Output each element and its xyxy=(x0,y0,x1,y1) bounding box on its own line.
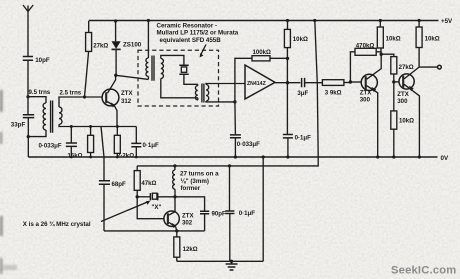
capacitor 0.1uF output decoupling xyxy=(283,83,311,157)
wire base xyxy=(350,81,361,83)
node Q2 base xyxy=(349,80,352,83)
node antenna/coil junction xyxy=(26,95,29,98)
capacitor 0.033uF xyxy=(39,127,78,158)
transformer core xyxy=(51,101,53,133)
svg-text:300: 300 xyxy=(397,98,408,105)
capacitor 33pF xyxy=(11,115,34,157)
resistor 12k xyxy=(174,231,198,261)
svg-text:15kΩ: 15kΩ xyxy=(68,153,83,160)
resistor 15k xyxy=(68,127,94,160)
wire T1 primary bottom xyxy=(147,76,149,79)
svg-text:Ceramic Resonator -: Ceramic Resonator - xyxy=(157,23,218,30)
resistor 47k xyxy=(134,166,156,197)
svg-text:10kΩ: 10kΩ xyxy=(293,36,308,43)
node xyxy=(89,125,92,128)
resistor 10k Q2 collector load xyxy=(377,21,400,55)
svg-text:SeekIC.com: SeekIC.com xyxy=(391,265,456,277)
svg-text:0·1μF: 0·1μF xyxy=(143,142,160,149)
svg-text:100kΩ: 100kΩ xyxy=(253,49,272,56)
svg-text:0·033μF: 0·033μF xyxy=(39,142,62,149)
wire secondary top to base xyxy=(59,97,102,107)
wire primary top xyxy=(28,97,46,103)
svg-text:10kΩ: 10kΩ xyxy=(386,36,401,43)
svg-text:3 9kΩ: 3 9kΩ xyxy=(325,89,342,96)
wire collector to resonator coil xyxy=(116,75,149,79)
svg-text:Mullard LP 1175/2 or Murata: Mullard LP 1175/2 or Murata xyxy=(157,30,239,37)
node Q2 collector junction xyxy=(380,53,383,56)
resistor 10k Q3 base bias xyxy=(391,82,414,157)
node 47k/crystal xyxy=(136,195,139,198)
wire 0V to ground line xyxy=(262,157,264,261)
antenna xyxy=(23,5,33,56)
inductor input primary 9.5 trns xyxy=(29,89,51,130)
inductor input secondary 2.5 trns xyxy=(59,90,82,125)
node emitter xyxy=(175,229,178,232)
wire rail to T1 primary xyxy=(147,21,149,59)
svg-text:10kΩ: 10kΩ xyxy=(425,36,440,43)
T1 core xyxy=(152,56,154,81)
node xyxy=(116,125,119,128)
wire T2 secondary top to ZN414 input xyxy=(206,84,245,85)
resistor 27k bias xyxy=(85,21,109,97)
label crystal note xyxy=(23,201,151,228)
svg-text:300: 300 xyxy=(360,97,371,104)
wire base Q3 xyxy=(394,81,399,83)
inductor 27 turns coil xyxy=(173,166,175,197)
svg-text:27kΩ: 27kΩ xyxy=(399,64,414,71)
node ground junction xyxy=(230,260,233,263)
ceramic resonator dashed box xyxy=(138,50,219,106)
svg-text:470kΩ: 470kΩ xyxy=(356,43,375,50)
svg-text:12kΩ: 12kΩ xyxy=(183,246,198,253)
transistor Q4 ZTX302 xyxy=(164,197,195,231)
resistor 3.9k xyxy=(322,80,350,97)
svg-text:3μF: 3μF xyxy=(297,90,308,97)
svg-text:ZTX: ZTX xyxy=(121,90,133,97)
arrow to resonator box xyxy=(200,45,206,58)
resistor 470k feedback xyxy=(350,43,381,82)
wire T1 secondary bottom to T2 xyxy=(161,79,198,98)
wire ZTX312 emitter to oscillator xyxy=(101,127,104,181)
capacitor 0.1uF oscillator decoupling xyxy=(225,166,255,261)
node base/27k junction xyxy=(83,95,86,98)
svg-text:0·033μF: 0·033μF xyxy=(237,141,260,148)
wire T2 secondary bottom xyxy=(206,100,235,103)
label ceramic resonator note xyxy=(157,23,239,44)
wire xyxy=(27,97,29,115)
svg-text:ZTX: ZTX xyxy=(397,91,409,98)
inductor T1 primary xyxy=(146,58,149,76)
svg-text:ZN414Z: ZN414Z xyxy=(247,81,267,87)
wire base L xyxy=(137,197,164,219)
svg-text:312: 312 xyxy=(121,98,132,105)
svg-text:⅛" (3mm): ⅛" (3mm) xyxy=(181,178,209,185)
node coil top xyxy=(173,164,176,167)
svg-text:27kΩ: 27kΩ xyxy=(93,43,108,50)
svg-text:ZS100: ZS100 xyxy=(123,42,142,49)
wire secondary bottom xyxy=(59,124,136,126)
node xyxy=(70,125,73,128)
resistor 27k Q3 base xyxy=(381,54,414,82)
svg-text:302: 302 xyxy=(182,220,193,227)
node rail dots xyxy=(70,155,421,158)
svg-text:2·2kΩ: 2·2kΩ xyxy=(117,152,134,159)
node supply line xyxy=(228,164,231,167)
resistor 10k ZN414 supply xyxy=(284,21,308,83)
op-amp U1 ZN414Z xyxy=(245,65,275,99)
crystal ceramic resonator element xyxy=(179,65,198,84)
transistor Q2 ZTX300 xyxy=(360,54,381,157)
inductor T2 secondary xyxy=(206,84,209,101)
svg-text:"X": "X" xyxy=(152,204,162,211)
capacitor 90pF xyxy=(175,197,226,231)
svg-text:9.5 trns: 9.5 trns xyxy=(29,89,51,96)
svg-text:47kΩ: 47kΩ xyxy=(141,180,156,187)
wire primary bottom xyxy=(28,130,46,137)
svg-text:68pF: 68pF xyxy=(112,181,127,188)
wire T1 secondary top to resonator xyxy=(161,55,184,65)
svg-text:+5V: +5V xyxy=(441,18,453,25)
transistor Q1 ZTX312 xyxy=(102,75,133,126)
transistor Q3 ZTX300 xyxy=(397,67,419,157)
node rail/zener xyxy=(114,19,117,22)
wire oscillator supply feed xyxy=(137,21,318,166)
wire output line xyxy=(275,82,300,84)
svg-text:2.5 trns: 2.5 trns xyxy=(60,90,82,97)
node crystal/collector junction xyxy=(173,195,176,198)
wire oscillator ground line xyxy=(177,260,263,262)
node T2 bottom / feedback xyxy=(233,100,236,103)
capacitor 3uF coupling xyxy=(297,78,322,97)
inductor T2 primary xyxy=(195,86,197,100)
svg-text:equivalent SFD 455B: equivalent SFD 455B xyxy=(160,37,222,44)
node coil bottom junction xyxy=(27,135,30,138)
svg-text:0·1μF: 0·1μF xyxy=(295,134,312,141)
node 100k/10k xyxy=(286,57,289,60)
svg-text:0V: 0V xyxy=(441,155,449,162)
wire T2 primary bottom xyxy=(197,98,199,100)
svg-text:ZTX: ZTX xyxy=(182,212,194,219)
wire T2 primary top xyxy=(197,84,199,85)
T2 core xyxy=(202,84,204,103)
svg-text:10pF: 10pF xyxy=(35,57,50,64)
diode ZS100 zener xyxy=(112,21,142,75)
resistor 10k Q3 collector load xyxy=(416,21,440,68)
capacitor 0.1uF emitter xyxy=(131,127,159,158)
ground xyxy=(226,261,238,270)
resistor 100k feedback xyxy=(235,49,288,102)
ground rail 0V xyxy=(28,155,449,162)
capacitor 0.033uF input xyxy=(230,102,260,157)
inductor T1 secondary xyxy=(161,58,164,78)
node collector junction xyxy=(114,74,117,77)
svg-text:0·1μF: 0·1μF xyxy=(239,210,256,217)
output terminal xyxy=(419,65,441,69)
resistor 2.2k xyxy=(114,127,134,160)
capacitor 68pF injection xyxy=(99,181,126,231)
capacitor 10pF xyxy=(23,57,50,97)
svg-text:90pF: 90pF xyxy=(212,211,227,218)
crystal X xyxy=(137,193,175,211)
svg-text:X is a 26 ¾ MHz crystal: X is a 26 ¾ MHz crystal xyxy=(23,221,91,228)
svg-text:33pF: 33pF xyxy=(11,122,26,129)
svg-text:ZTX: ZTX xyxy=(360,89,372,96)
node Q3 base xyxy=(392,80,395,83)
svg-text:27 turns on a: 27 turns on a xyxy=(180,170,219,177)
svg-text:10kΩ: 10kΩ xyxy=(399,118,414,125)
power rail +5V xyxy=(89,18,453,25)
svg-text:former: former xyxy=(181,185,201,192)
wire oscillator bottom loop xyxy=(104,230,205,232)
label coil note xyxy=(180,170,219,192)
node ZN414 output xyxy=(286,81,289,84)
